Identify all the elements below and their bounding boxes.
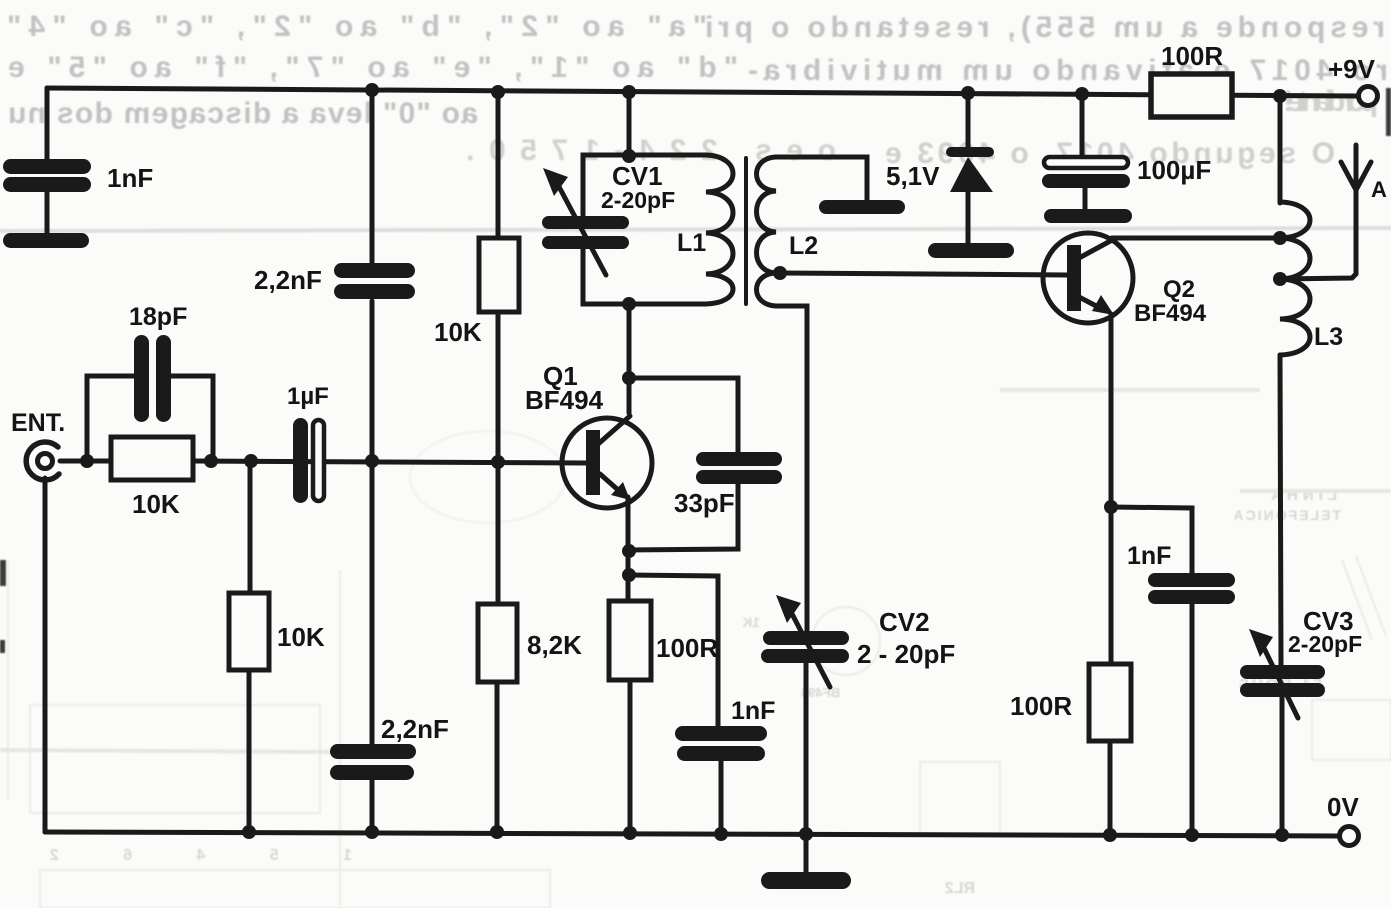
svg-text:10K: 10K: [277, 622, 325, 652]
wire CV2 to rail and ground: [804, 663, 809, 872]
wire rail to L3: [1278, 96, 1283, 203]
node L2 tap: [773, 266, 787, 280]
wire node down to R2: [248, 461, 253, 593]
ground bar (below 1nF): [3, 233, 89, 248]
svg-text:L1: L1: [677, 229, 706, 257]
svg-text:1nF: 1nF: [731, 697, 775, 725]
transistor Q1 BF494: [562, 416, 652, 508]
wire 33pF branch top: [629, 378, 738, 453]
node emitter 1nF branch Q2: [1104, 500, 1118, 514]
ground bar (L2 top tap): [819, 200, 905, 214]
node input-18pF left: [80, 454, 94, 468]
node tank bottom x629: [622, 297, 636, 311]
svg-text:BF494: BF494: [1134, 300, 1207, 327]
wire input signal line: [60, 461, 586, 463]
svg-text:"a" ao "2", "b" ao "2", "c" ao: "a" ao "2", "b" ao "2", "c" ao "4": [7, 10, 707, 43]
ground bar (below zener): [928, 243, 1014, 258]
capacitor C 100uF (electrolytic): [1042, 94, 1132, 223]
svg-text:1nF: 1nF: [107, 163, 153, 193]
capacitor C 33pF: [696, 452, 782, 484]
resistor R 100R (supply): [1151, 74, 1232, 117]
node signal x372: [365, 454, 379, 468]
node rail-bottom x630: [623, 826, 637, 840]
svg-text:2,2nF: 2,2nF: [254, 265, 322, 295]
node rail x1280: [1273, 89, 1287, 103]
svg-text:BF494: BF494: [525, 385, 604, 415]
svg-text:18pF: 18pF: [129, 303, 187, 331]
node rail-bottom x1282: [1275, 828, 1289, 842]
wire +9V top rail: [47, 88, 1358, 96]
inductor L1: [706, 155, 733, 304]
svg-text:1 5 4 6 2 01: 1 5 4 6 2 01: [0, 847, 352, 864]
svg-text:10K: 10K: [132, 489, 180, 519]
svg-text:2 - 20pF: 2 - 20pF: [857, 639, 955, 669]
resistor R 10K (input to ground): [229, 593, 269, 670]
wire Q2 100R to rail: [1108, 741, 1113, 835]
wire CV3 to rail: [1280, 697, 1285, 835]
node rail x372: [365, 83, 379, 97]
node rail-bottom x806: [799, 827, 813, 841]
svg-text:5,1V: 5,1V: [886, 161, 940, 191]
transistor Q2 BF494: [1043, 233, 1133, 323]
wire tank top feed: [627, 92, 632, 157]
wire R2 to 0V rail: [247, 670, 252, 832]
node emitter 33pF return: [622, 544, 636, 558]
node rail x498: [491, 85, 505, 99]
svg-text:responde a um 555), resetando: responde a um 555), resetando o pri: [705, 11, 1385, 44]
resistor R 10K (series input): [111, 437, 193, 480]
node rail x1082: [1075, 87, 1089, 101]
capacitor C 1nF (top-left): [3, 159, 91, 192]
wire x498 vertical lower: [497, 462, 498, 832]
svg-text:2-20pF: 2-20pF: [601, 187, 675, 213]
node divider 10K lower tap: [244, 454, 258, 468]
wire Q2 emitter down: [1109, 314, 1114, 664]
wire x498 vertical upper: [496, 92, 501, 462]
node R2 bottom rail: [242, 825, 256, 839]
node rail-bottom x372: [365, 825, 379, 839]
wire 18pF bracket: [87, 376, 213, 461]
capacitor C 2,2nF (lower): [330, 744, 416, 780]
svg-text:1µF: 1µF: [287, 383, 329, 410]
svg-text:1nF: 1nF: [1127, 542, 1171, 570]
terminal ENT. input: [26, 442, 59, 480]
wire 1nF branch: [629, 575, 718, 727]
wire Q2 1nF to rail: [1190, 604, 1195, 835]
transformer core: [744, 158, 748, 304]
svg-text:ao "0" leva a discagem dos nu: ao "0" leva a discagem dos nu: [8, 97, 478, 130]
wire L2 tap to Q2 base: [780, 273, 1067, 275]
capacitor C 1nF (Q2 emitter): [1148, 573, 1235, 604]
wire C1 to ground: [45, 192, 50, 234]
inductor L2: [757, 157, 868, 312]
wire L2 bottom to CV2: [805, 312, 810, 632]
svg-text:8,2K: 8,2K: [527, 630, 582, 660]
wire x372 vertical upper: [370, 91, 375, 461]
node rail x629: [622, 85, 636, 99]
node collector 33pF branch: [622, 371, 636, 385]
svg-text:10K: 10K: [434, 317, 482, 347]
wire Q1 collector up to tank: [627, 304, 632, 413]
node rail-bottom x497: [490, 825, 504, 839]
svg-text:TELEFONICA: TELEFONICA: [1232, 507, 1341, 523]
node signal x498: [491, 455, 505, 469]
ground bar (below CV2): [761, 872, 851, 889]
wire 0V bottom rail: [45, 832, 1339, 836]
resistor R 10K (base bias upper): [479, 238, 519, 312]
wire L3 bottom to CV3: [1280, 355, 1281, 665]
svg-text:+9V: +9V: [1328, 54, 1376, 84]
resistor R 8,2K (base bias lower): [478, 604, 517, 682]
svg-text:L2: L2: [789, 232, 818, 260]
svg-text:0V: 0V: [1327, 792, 1359, 822]
wire tank box: [583, 155, 706, 304]
svg-text:CV2: CV2: [879, 607, 930, 637]
node tank top x629: [622, 149, 636, 163]
svg-text:"d" ao "1", "e" ao "7", "f" ao: "d" ao "1", "e" ao "7", "f" ao "5" e: [8, 51, 738, 84]
wire Q1 emitter down: [626, 497, 631, 601]
wire top-left drop to C1: [45, 88, 50, 160]
svg-text:33pF: 33pF: [674, 488, 735, 518]
svg-text:100R: 100R: [1161, 41, 1223, 71]
terminal +9V: [1359, 87, 1378, 106]
wire 33pF branch bottom: [630, 484, 738, 550]
antenna A: [1280, 145, 1371, 279]
svg-text:1K: 1K: [742, 614, 760, 630]
svg-text:RL2: RL2: [945, 880, 975, 897]
svg-text:100R: 100R: [656, 633, 718, 663]
capacitor C 18pF: [134, 335, 171, 422]
capacitor C 1nF (emitter): [675, 726, 767, 761]
terminal 0V: [1340, 827, 1359, 846]
svg-text:ENT.: ENT.: [11, 409, 65, 437]
node rail-bottom x1110: [1103, 828, 1117, 842]
node L3 antenna tap: [1273, 272, 1287, 286]
node 18pF right: [204, 454, 218, 468]
wire 1nF to rail: [719, 761, 724, 834]
resistor R 100R (Q1 emitter): [609, 601, 651, 680]
node rail-bottom x721: [714, 827, 728, 841]
svg-text:100µF: 100µF: [1137, 155, 1211, 185]
diode D 5,1V zener: [946, 92, 994, 244]
resistor R 100R (Q2 emitter): [1089, 664, 1131, 741]
capacitor CV3 2-20pF (variable): [1240, 629, 1325, 718]
capacitor CV2 2-20pF (variable): [761, 595, 849, 687]
node emitter 1nF branch: [622, 568, 636, 582]
wire Q2 collector to L3: [1112, 236, 1280, 241]
svg-text:2,2nF: 2,2nF: [381, 714, 449, 744]
capacitor CV1 2-20pF (variable): [542, 168, 629, 275]
node rail-bottom x1192: [1185, 828, 1199, 842]
svg-text:2-20pF: 2-20pF: [1288, 631, 1362, 657]
wire ENT down to 0V rail: [43, 478, 48, 832]
svg-text:A: A: [1371, 177, 1387, 202]
svg-text:100R: 100R: [1010, 691, 1072, 721]
wire x372 vertical lower: [370, 461, 375, 832]
node rail x968: [961, 86, 975, 100]
wire Q2 1nF branch: [1111, 507, 1192, 574]
node L3 collector tap: [1273, 231, 1287, 245]
svg-text:L3: L3: [1314, 323, 1343, 351]
svg-text:ro 4017 e ativando um mutivibr: ro 4017 e ativando um mutivibra-: [748, 54, 1388, 87]
inductor L3: [1280, 202, 1310, 355]
capacitor C 2,2nF (upper): [334, 263, 415, 299]
wire 100R to rail: [628, 680, 633, 833]
svg-text:Q2: Q2: [1163, 276, 1195, 303]
capacitor C 1uF (coupling): [293, 418, 324, 503]
